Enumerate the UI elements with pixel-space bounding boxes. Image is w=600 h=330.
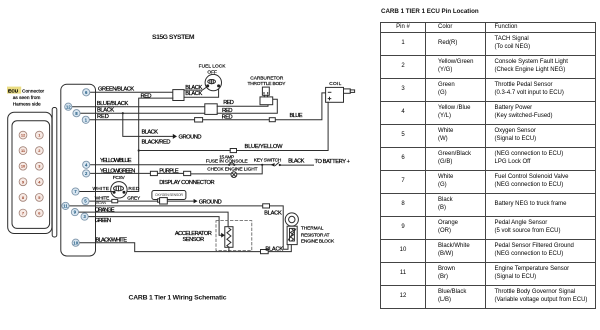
wire RED pin1 to splice and coil (BLUE) <box>89 93 325 120</box>
junction on BLACK wire <box>122 112 124 114</box>
svg-text:BLACK: BLACK <box>288 158 305 164</box>
wire WHITE pin7 to FCSV <box>79 186 113 192</box>
wire GREEN/BLACK pin6 to fuel-lock connector <box>90 87 173 93</box>
svg-text:10: 10 <box>21 164 25 169</box>
svg-text:BLACK: BLACK <box>265 247 283 253</box>
accelerator sensor potentiometer <box>225 227 233 252</box>
svg-text:BLACK: BLACK <box>142 130 159 136</box>
svg-text:TO BATTERY +: TO BATTERY + <box>315 159 351 165</box>
wire WHITE/GREY pin5 to oxygen sensor and ground <box>89 195 193 201</box>
svg-text:FUEL LOCK: FUEL LOCK <box>199 64 227 70</box>
fuel lock solenoid <box>199 64 227 91</box>
svg-text:BLUE/YELLOW: BLUE/YELLOW <box>245 144 284 150</box>
wire YELLOW/BLUE pin4 to key switch <box>90 158 273 165</box>
svg-text:Harness side: Harness side <box>13 102 41 108</box>
svg-text:OFF: OFF <box>207 69 217 75</box>
connector pin 3 <box>35 162 43 170</box>
svg-text:10: 10 <box>73 240 78 245</box>
svg-text:GREEN: GREEN <box>95 218 111 224</box>
splice block (throttle body feeds) <box>205 104 217 115</box>
svg-text:11: 11 <box>63 204 68 209</box>
ECU pin 5 <box>82 198 89 205</box>
svg-text:Connector: Connector <box>22 88 45 94</box>
wire RED splice to carburetor right <box>217 99 277 114</box>
ECU pin 9 <box>71 209 78 216</box>
svg-text:GROUND: GROUND <box>199 200 222 206</box>
display connector plug right <box>184 171 191 175</box>
svg-text:RED: RED <box>128 186 140 192</box>
wire BLACK branch to ground <box>123 113 173 136</box>
thermal resistor at engine block <box>285 213 335 245</box>
ECU pin 7 <box>72 188 79 195</box>
svg-text:as seen from: as seen from <box>13 95 41 101</box>
ECU pin 2 <box>83 170 90 177</box>
wire BLACK fuel lock upper <box>184 85 208 91</box>
junction fused bus / fuse wire <box>138 149 140 151</box>
fuel lock connector block <box>173 90 184 101</box>
svg-text:ENGINE BLOCK: ENGINE BLOCK <box>301 239 335 245</box>
key switch <box>254 157 314 166</box>
svg-text:CHECK ENGINE LIGHT: CHECK ENGINE LIGHT <box>207 167 257 173</box>
fuse 15 AMP in console <box>139 149 248 165</box>
svg-text:THERMAL: THERMAL <box>301 226 324 232</box>
svg-text:RESISTOR AT: RESISTOR AT <box>301 232 330 238</box>
carburetor throttle body <box>248 75 287 104</box>
svg-text:RED: RED <box>222 115 233 121</box>
wire RED fuel-lock feed to fused battery bus <box>125 93 173 191</box>
svg-text:BLACK: BLACK <box>264 211 282 217</box>
wire BROWN pin11 to thermal resistor <box>69 206 288 249</box>
wire RED splice to carburetor bottom <box>217 100 268 106</box>
connector pin 8 <box>19 194 27 202</box>
fuse symbol 15 AMP on battery wire <box>228 163 235 166</box>
ECU pin 12 <box>65 103 72 110</box>
svg-text:BLACK: BLACK <box>185 85 202 91</box>
inline connector on BLUE wire to coil <box>269 118 275 122</box>
svg-text:OXYGEN SENSOR: OXYGEN SENSOR <box>155 193 184 197</box>
ECU pin 8 <box>73 110 80 117</box>
wiper arrow <box>221 233 225 238</box>
connector pin 11 <box>19 147 27 155</box>
ECU pin 3 <box>81 213 88 220</box>
junction check-engine-light tap <box>261 164 263 166</box>
svg-text:RED: RED <box>97 114 109 120</box>
ECU box <box>61 84 96 256</box>
svg-text:BLUE: BLUE <box>290 113 303 119</box>
ECU pin 6 <box>83 89 90 96</box>
svg-text:COIL: COIL <box>329 81 341 87</box>
svg-text:FCSV: FCSV <box>113 175 126 181</box>
svg-text:RED: RED <box>223 100 234 106</box>
svg-text:BLACK: BLACK <box>185 91 202 97</box>
wire GREEN pin3 to accelerator sensor wiper <box>88 217 222 236</box>
svg-text:ACCELERATOR: ACCELERATOR <box>175 231 212 237</box>
svg-text:DISPLAY CONNECTOR: DISPLAY CONNECTOR <box>159 180 214 186</box>
connector pin 2 <box>35 147 43 155</box>
svg-text:SENSOR: SENSOR <box>183 237 205 243</box>
ECU pin 11 <box>62 202 69 209</box>
svg-text:CARB 1 Tier 1 Wiring Schematic: CARB 1 Tier 1 Wiring Schematic <box>129 294 227 301</box>
svg-text:BLUE/BLACK: BLUE/BLACK <box>97 101 129 107</box>
ignition coil <box>326 81 355 102</box>
wire BLACK/WHITE pin10 ground return <box>79 237 291 251</box>
oxygen sensor label box <box>152 191 186 200</box>
connector pin 7 <box>19 209 27 217</box>
inline connector on BROWN wire <box>263 204 270 208</box>
svg-text:7: 7 <box>22 211 24 216</box>
display connector plug left <box>150 171 157 175</box>
ECU pin 10 <box>72 239 79 246</box>
inline connector on WHITE wire <box>112 199 118 202</box>
svg-text:PURPLE: PURPLE <box>159 169 179 175</box>
svg-text:12: 12 <box>66 104 71 109</box>
connector pin 5 <box>35 194 43 202</box>
svg-text:KEY SWITCH: KEY SWITCH <box>254 157 282 163</box>
ECU connector housing <box>8 108 57 238</box>
oxygen sensor plug <box>158 198 168 204</box>
svg-text:ECU: ECU <box>8 88 19 94</box>
wire BLACK pin8 to splice block with ground branch <box>80 108 205 114</box>
accelerator sensor dashed enclosure <box>216 221 252 251</box>
ECU pin 1 <box>82 116 89 123</box>
svg-text:BROWN: BROWN <box>95 201 107 205</box>
ground arrow (oxygen sensor) <box>194 199 198 204</box>
svg-text:GREEN/BLACK: GREEN/BLACK <box>98 87 134 93</box>
svg-text:BLACK/RED: BLACK/RED <box>142 139 171 145</box>
svg-text:BLACK: BLACK <box>97 108 114 114</box>
ECU pin 4 <box>83 161 90 168</box>
wire BLUE/YELLOW coil feed <box>237 102 329 150</box>
connector pin 1 <box>35 131 43 139</box>
svg-text:GREY: GREY <box>127 195 141 201</box>
connector pin 6 <box>35 209 43 217</box>
svg-text:GROUND: GROUND <box>179 135 202 141</box>
svg-text:RED: RED <box>222 108 233 114</box>
table title <box>381 8 479 15</box>
connector pin 4 <box>35 178 43 186</box>
connector pin 12 <box>19 131 27 139</box>
svg-text:YELLOW/BLUE: YELLOW/BLUE <box>100 158 132 164</box>
svg-text:YELLOW/GREEN: YELLOW/GREEN <box>100 168 135 174</box>
svg-text:THROTTLE BODY: THROTTLE BODY <box>248 81 287 87</box>
svg-text:WHITE: WHITE <box>93 186 110 192</box>
connector pin 9 <box>19 178 27 186</box>
inline connector on RED wire <box>195 118 203 122</box>
svg-text:RED: RED <box>141 93 152 99</box>
wire YELLOW/GREEN pin2 to check engine light <box>90 165 263 175</box>
FCSV solenoid valve <box>111 175 127 198</box>
inline connector on bottom BLACK wire <box>261 250 269 254</box>
wire ORANGE pin9 to accelerator sensor top <box>79 207 229 226</box>
ECU pin location table <box>380 22 596 309</box>
svg-text:S15G SYSTEM: S15G SYSTEM <box>152 34 195 41</box>
svg-text:BLACK/WHITE: BLACK/WHITE <box>96 237 128 243</box>
svg-text:ORANGE: ORANGE <box>95 207 115 213</box>
ground arrow (BLACK/BLACK-RED) <box>173 134 177 139</box>
connector pin 10 <box>19 162 27 170</box>
svg-text:CARBURETOR: CARBURETOR <box>250 75 284 81</box>
ECU connector label <box>7 87 45 108</box>
check engine light bulb <box>207 167 257 178</box>
svg-text:FUSE IN CONSOLE: FUSE IN CONSOLE <box>206 159 248 165</box>
wire BLUE/BLACK pin12 to splice block <box>72 101 205 107</box>
wire BLACK fuel lock lower <box>184 87 219 98</box>
